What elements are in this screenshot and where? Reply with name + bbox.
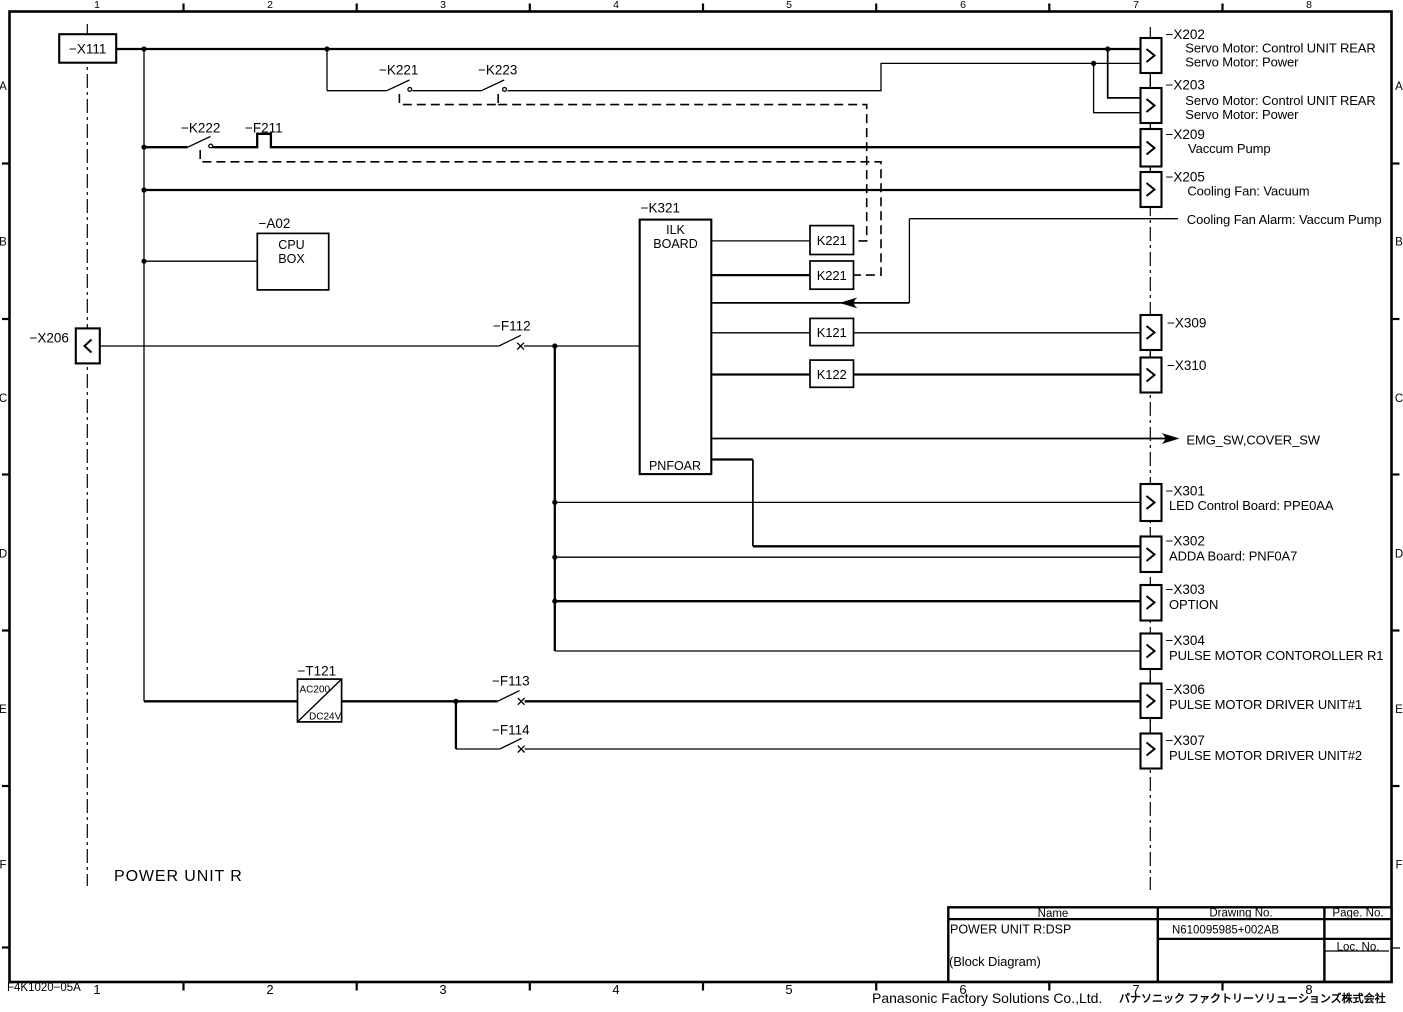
- wire F112 to ILK board: [524, 345, 640, 347]
- connector X310: [1141, 358, 1207, 393]
- wire link X309-X310: [1149, 350, 1151, 358]
- arrowhead alarm into ILK: [840, 297, 858, 308]
- wire link X209-X205: [1149, 167, 1151, 173]
- wire bus to X303: [555, 600, 1141, 602]
- svg-text:F: F: [0, 860, 7, 872]
- svg-text:3: 3: [439, 982, 446, 997]
- svg-text:POWER UNIT R:DSP: POWER UNIT R:DSP: [950, 923, 1071, 937]
- svg-text:Vaccum Pump: Vaccum Pump: [1188, 141, 1270, 156]
- svg-text:C: C: [1395, 393, 1403, 405]
- wire row to X205 cooling fan: [144, 189, 1141, 191]
- relay coil K221b: [810, 261, 854, 289]
- connector boundary centerline right: [1149, 27, 1151, 890]
- svg-text:−X302: −X302: [1166, 534, 1205, 549]
- svg-text:−T121: −T121: [298, 664, 337, 679]
- svg-text:−K222: −K222: [181, 121, 220, 136]
- svg-text:N610095985+002AB: N610095985+002AB: [1172, 925, 1279, 937]
- svg-text:F: F: [1395, 860, 1402, 872]
- connector X202: [1141, 27, 1376, 73]
- svg-text:A: A: [0, 81, 7, 93]
- switch F113 blade: [498, 691, 520, 702]
- switch K222 contact circle: [209, 144, 213, 148]
- CPU box A02: [257, 216, 328, 290]
- junction dot bus X303 row: [552, 599, 557, 604]
- relay coil K121: [810, 318, 854, 345]
- row letters right: [1395, 81, 1403, 872]
- junction dot main bus at left vertical: [141, 46, 146, 51]
- vertical distribution bus from F112 node: [554, 346, 556, 651]
- svg-text:−X206: −X206: [30, 331, 69, 346]
- switch F113 contact x-mark: [518, 698, 525, 705]
- switch K223 blade: [481, 80, 504, 91]
- wire K221/K223 switch row to X202 lower pin: [327, 63, 1141, 90]
- frame tick marks bottom: [184, 982, 1223, 991]
- svg-text:−A02: −A02: [259, 216, 291, 231]
- switch F112 contact x-mark: [517, 343, 524, 350]
- connector X111: [59, 34, 116, 63]
- svg-text:Name: Name: [1038, 908, 1069, 920]
- wire link X202-X203: [1149, 73, 1151, 88]
- wire link X306-X307: [1149, 718, 1151, 734]
- wire ILK to relay K221a: [711, 240, 810, 242]
- dashed interlock line from K221/K223 to relay coil K221a: [399, 94, 866, 241]
- svg-text:5: 5: [786, 0, 792, 11]
- switch F114 contact x-mark: [518, 746, 525, 753]
- svg-text:1: 1: [94, 0, 100, 11]
- wire CPU box feed: [144, 260, 257, 262]
- svg-text:C: C: [0, 393, 7, 405]
- svg-text:−X111: −X111: [69, 42, 106, 57]
- svg-text:B: B: [1395, 237, 1403, 249]
- junction dot F113/F114 branch: [453, 699, 458, 704]
- svg-text:E: E: [0, 704, 7, 716]
- svg-text:−X209: −X209: [1166, 127, 1205, 142]
- junction dot bus X302 row: [552, 555, 557, 560]
- svg-text:D: D: [0, 549, 7, 561]
- svg-text:Servo Motor: Control UNIT REAR: Servo Motor: Control UNIT REAR: [1185, 93, 1375, 108]
- svg-text:−F112: −F112: [493, 319, 531, 334]
- wire cooling fan alarm into ILK board: [711, 302, 909, 304]
- svg-text:−X306: −X306: [1166, 682, 1205, 697]
- wire link X304-X306: [1149, 669, 1151, 684]
- svg-text:3: 3: [440, 0, 446, 11]
- wire branch main bus to K221 switch row: [326, 49, 328, 91]
- svg-text:POWER UNIT R: POWER UNIT R: [114, 868, 243, 885]
- svg-text:−X203: −X203: [1166, 78, 1205, 93]
- svg-text:K122: K122: [817, 367, 847, 382]
- connector X203: [1141, 78, 1376, 124]
- svg-text:−K223: −K223: [478, 63, 517, 78]
- svg-text:−K221: −K221: [379, 63, 418, 78]
- connector X309: [1141, 315, 1207, 350]
- transformer T121 AC200/DC24V: [298, 664, 342, 723]
- frame tick marks left: [2, 164, 10, 948]
- junction dot F112 node: [552, 343, 557, 348]
- column numbers top: [94, 0, 1312, 11]
- row letters left: [0, 81, 7, 872]
- svg-text:Cooling Fan Alarm: Vaccum Pump: Cooling Fan Alarm: Vaccum Pump: [1187, 212, 1382, 227]
- wire F113 to X306: [525, 700, 1141, 702]
- connector X302: [1141, 534, 1298, 573]
- wire branch down to left vertical bus: [143, 49, 145, 701]
- svg-text:Servo Motor: Power: Servo Motor: Power: [1185, 55, 1299, 70]
- svg-text:Page. No.: Page. No.: [1332, 908, 1383, 920]
- svg-text:4: 4: [612, 982, 619, 997]
- svg-text:1: 1: [93, 982, 100, 997]
- svg-text:CPU: CPU: [278, 238, 304, 252]
- relay coil K122: [810, 360, 854, 387]
- wire EMG_SW COVER_SW: [711, 438, 1165, 440]
- svg-text:−X301: −X301: [1166, 484, 1205, 499]
- svg-text:DC24V: DC24V: [309, 712, 342, 723]
- title block: [948, 907, 1400, 982]
- junction X202 branch to X203 upper: [1108, 49, 1141, 98]
- wire ILK to relay K122: [711, 373, 1140, 375]
- svg-text:K221: K221: [817, 268, 847, 283]
- svg-text:PULSE MOTOR CONTOROLLER R1: PULSE MOTOR CONTOROLLER R1: [1169, 648, 1383, 663]
- connector X303: [1141, 582, 1219, 621]
- svg-text:4: 4: [613, 0, 619, 11]
- svg-text:2: 2: [266, 982, 273, 997]
- switch K221 blade: [387, 80, 410, 91]
- junction dot left bus CPU row: [141, 259, 146, 264]
- svg-text:OPTION: OPTION: [1169, 597, 1218, 612]
- junction X202 lower branch to X203 lower: [1094, 63, 1141, 112]
- wire X206 to F112: [100, 345, 499, 347]
- svg-text:EMG_SW,COVER_SW: EMG_SW,COVER_SW: [1186, 433, 1320, 448]
- svg-text:−X303: −X303: [1166, 582, 1205, 597]
- svg-text:ILK: ILK: [666, 223, 685, 237]
- svg-text:Servo Motor: Power: Servo Motor: Power: [1185, 107, 1299, 122]
- svg-text:PNFOAR: PNFOAR: [649, 459, 701, 473]
- svg-text:K121: K121: [817, 325, 847, 340]
- wire main bus X111 to X202: [116, 48, 1140, 50]
- frame tick marks right: [1392, 164, 1400, 787]
- connector X306: [1141, 682, 1363, 718]
- junction dot main bus at K221 branch: [324, 46, 329, 51]
- wire bus to X302 lower: [555, 556, 1141, 558]
- connector X206: [30, 328, 100, 363]
- svg-text:Cooling Fan: Vacuum: Cooling Fan: Vacuum: [1187, 184, 1309, 199]
- svg-text:D: D: [1395, 549, 1403, 561]
- frame tick marks top: [184, 4, 1223, 12]
- svg-text:A: A: [1395, 81, 1403, 93]
- svg-text:パナソニック ファクトリーソリューションズ株式会社: パナソニック ファクトリーソリューションズ株式会社: [1119, 991, 1386, 1005]
- wire K222/F211 row to X209: [144, 134, 1141, 147]
- svg-text:E: E: [1395, 704, 1403, 716]
- svg-text:6: 6: [960, 0, 966, 11]
- svg-text:F4K1020−05A: F4K1020−05A: [7, 982, 81, 994]
- svg-text:7: 7: [1133, 0, 1139, 11]
- svg-text:−X205: −X205: [1166, 170, 1205, 185]
- svg-text:−F113: −F113: [492, 674, 530, 689]
- junction dot left bus K222 row: [141, 145, 146, 150]
- svg-text:LED Control Board: PPE0AA: LED Control Board: PPE0AA: [1169, 498, 1334, 513]
- wire bus to X301: [555, 501, 1141, 503]
- junction dot bus X301 row: [552, 500, 557, 505]
- svg-text:−X304: −X304: [1166, 633, 1206, 648]
- junction dot main bus at X203 branch: [1105, 46, 1110, 51]
- svg-text:8: 8: [1306, 0, 1312, 11]
- svg-text:Loc. No.: Loc. No.: [1337, 942, 1380, 954]
- svg-text:B: B: [0, 237, 7, 249]
- connector X307: [1141, 733, 1363, 769]
- switch F114 blade: [500, 738, 522, 749]
- connector X205: [1141, 170, 1310, 208]
- arrowhead EMG_SW: [1162, 433, 1180, 444]
- column numbers bottom: [93, 982, 1312, 997]
- connector X304: [1141, 633, 1384, 669]
- ILK board K321: [640, 201, 712, 475]
- wire F114 to X307: [525, 748, 1141, 750]
- svg-text:BOARD: BOARD: [653, 237, 697, 251]
- switch K222 blade: [188, 137, 211, 148]
- svg-text:−X310: −X310: [1167, 358, 1206, 373]
- svg-text:PULSE MOTOR DRIVER UNIT#2: PULSE MOTOR DRIVER UNIT#2: [1169, 748, 1362, 763]
- svg-text:−K321: −K321: [641, 201, 680, 216]
- svg-text:ADDA Board: PNF0A7: ADDA Board: PNF0A7: [1169, 549, 1297, 564]
- svg-text:−X307: −X307: [1166, 733, 1205, 748]
- svg-text:K221: K221: [817, 233, 847, 248]
- dashed interlock line from K222 to relay coil K221b: [200, 150, 881, 275]
- wire branch down to F114: [455, 701, 457, 749]
- svg-text:AC200: AC200: [300, 685, 331, 696]
- svg-text:−F114: −F114: [492, 723, 530, 738]
- power unit boundary centerline left: [86, 24, 88, 886]
- wire T121 to F113 junction: [342, 700, 498, 702]
- svg-text:PULSE MOTOR DRIVER UNIT#1: PULSE MOTOR DRIVER UNIT#1: [1169, 697, 1362, 712]
- relay coil K221a: [810, 226, 854, 255]
- wire ILK to relay K221b: [711, 274, 810, 276]
- junction dot K223 row at X203 branch: [1091, 61, 1096, 66]
- svg-text:Panasonic Factory Solutions Co: Panasonic Factory Solutions Co.,Ltd.: [872, 990, 1102, 1006]
- svg-text:Servo Motor: Control UNIT REAR: Servo Motor: Control UNIT REAR: [1185, 41, 1375, 56]
- wire ILK to relay K121: [711, 332, 1140, 334]
- svg-text:5: 5: [785, 982, 792, 997]
- wire PNFOAR to X302 upper: [711, 458, 753, 460]
- svg-text:Drawing No.: Drawing No.: [1209, 908, 1272, 920]
- junction dot left bus X205 row: [141, 187, 146, 192]
- svg-text:(Block Diagram): (Block Diagram): [949, 954, 1041, 969]
- connector X301: [1141, 484, 1334, 522]
- connector X209: [1141, 127, 1271, 167]
- svg-text:−X309: −X309: [1167, 316, 1206, 331]
- switch K221 contact circle: [408, 88, 412, 92]
- switch F112 blade: [499, 335, 521, 346]
- svg-text:2: 2: [267, 0, 273, 11]
- svg-text:BOX: BOX: [278, 252, 305, 266]
- switch K223 contact circle: [503, 88, 507, 92]
- svg-text:−F211: −F211: [245, 121, 283, 136]
- wire link X203-X209: [1149, 123, 1151, 129]
